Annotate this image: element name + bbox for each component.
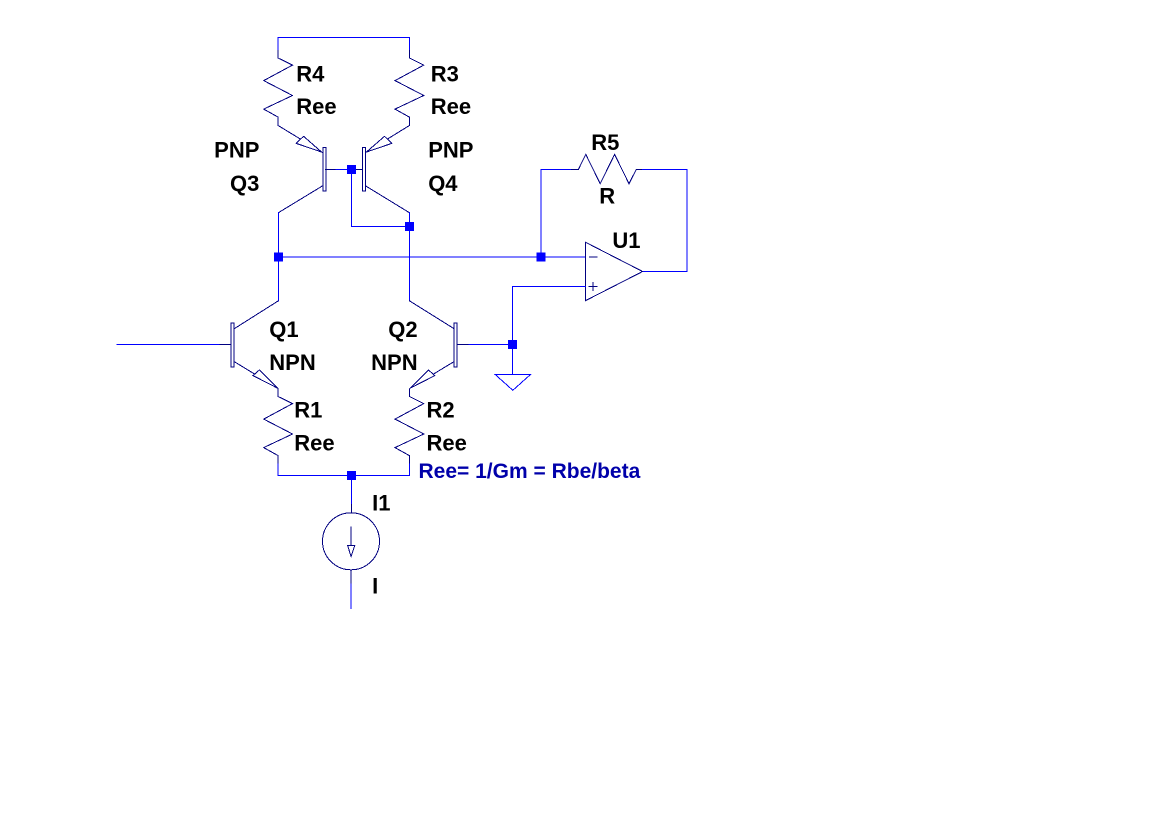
- wire inverting input line: [278, 256, 585, 258]
- svg-text:Ree: Ree: [294, 430, 334, 455]
- svg-text:NPN: NPN: [371, 350, 417, 375]
- svg-text:Q2: Q2: [388, 317, 417, 342]
- svg-text:NPN: NPN: [269, 350, 315, 375]
- svg-text:Ree: Ree: [296, 94, 336, 119]
- wire top rail from R4 to R3: [278, 38, 409, 53]
- junction node feedback tap: [537, 252, 546, 261]
- svg-text:R1: R1: [294, 397, 322, 422]
- svg-text:R: R: [599, 183, 615, 208]
- svg-text:Ree: Ree: [427, 430, 467, 455]
- svg-text:Ree= 1/Gm = Rbe/beta: Ree= 1/Gm = Rbe/beta: [419, 460, 641, 483]
- svg-text:I: I: [372, 573, 378, 598]
- wire I1 bottom stub: [350, 584, 352, 609]
- wire tail node to current source: [351, 476, 353, 506]
- wire Q3 collector down to Q1 collector: [277, 213, 279, 301]
- resistor R5: [571, 154, 643, 183]
- wire noninverting input: [512, 287, 585, 375]
- junction node Q3 collector: [274, 253, 283, 262]
- transistor Q3 (PNP): [278, 126, 336, 213]
- svg-text:Q1: Q1: [269, 317, 298, 342]
- wire Q4 collector down to Q2 collector: [408, 213, 410, 301]
- resistor R1: [264, 389, 293, 464]
- transistor Q1 (NPN): [220, 301, 278, 389]
- ground: [495, 374, 530, 390]
- junction node Q2 base / ground: [508, 340, 517, 349]
- svg-text:Q3: Q3: [230, 171, 259, 196]
- wire feedback left vertical: [541, 170, 572, 257]
- transistor Q2 (NPN): [409, 301, 468, 389]
- svg-text:U1: U1: [612, 228, 640, 253]
- op-amp U1: [586, 242, 643, 300]
- wire R1 bottom to tail node: [278, 464, 351, 476]
- svg-text:R2: R2: [427, 397, 455, 422]
- svg-text:R5: R5: [591, 130, 619, 155]
- wire R2 bottom to tail node: [352, 464, 410, 476]
- resistor R3: [395, 51, 424, 126]
- svg-text:Ree: Ree: [431, 94, 471, 119]
- wire input to Q1 base: [117, 343, 230, 345]
- svg-text:R3: R3: [431, 61, 459, 86]
- transistor Q4 (PNP): [352, 126, 409, 213]
- junction node tail: [347, 471, 356, 480]
- svg-text:PNP: PNP: [214, 138, 259, 163]
- wire base node down and right to Q4 collector: [352, 173, 410, 227]
- resistor R4: [264, 51, 293, 126]
- wire feedback right loop to op-amp output: [643, 170, 688, 272]
- junction node Q3-Q4 base: [347, 165, 356, 174]
- wire Q2 base to ground node: [458, 343, 512, 345]
- svg-text:PNP: PNP: [428, 138, 473, 163]
- junction node Q4 collector: [405, 222, 414, 231]
- resistor R2: [395, 389, 424, 464]
- svg-text:I1: I1: [372, 491, 390, 516]
- svg-text:R4: R4: [296, 61, 325, 86]
- current source I1: [323, 505, 380, 584]
- svg-text:Q4: Q4: [428, 171, 458, 196]
- wire Q3 base to Q4 base: [336, 168, 353, 170]
